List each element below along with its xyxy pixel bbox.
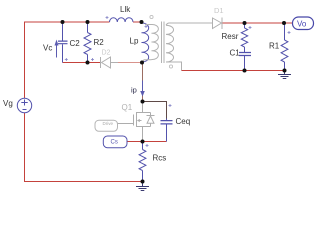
capacitor Ceq <box>161 119 173 124</box>
wire Llk to transformer <box>133 21 142 23</box>
svg-text:D1: D1 <box>214 6 224 15</box>
drive source block <box>95 120 118 131</box>
ground output <box>278 71 291 79</box>
mosfet Q1 <box>118 102 155 142</box>
diode D1 <box>213 18 223 30</box>
svg-text:Q1: Q1 <box>122 103 133 112</box>
svg-text:Llk: Llk <box>120 5 131 14</box>
junction C2 top <box>61 20 65 24</box>
junction Resr top <box>243 21 247 25</box>
polarity dot secondary <box>169 65 172 68</box>
svg-text:R2: R2 <box>94 38 105 47</box>
junction R2 bottom <box>86 61 90 65</box>
junction R1 bottom <box>283 69 287 73</box>
junction bottom rail end <box>141 180 145 184</box>
junction R1 top <box>282 21 286 25</box>
transformer T1 primary winding <box>143 24 159 62</box>
junction switch node <box>140 61 144 65</box>
svg-text:Vc: Vc <box>43 44 52 53</box>
wire drain to Ceq top <box>143 102 167 119</box>
svg-text:Lp: Lp <box>130 37 139 46</box>
svg-text:Vo: Vo <box>297 20 307 29</box>
wire bottom rail <box>24 181 143 183</box>
wire output bottom rail <box>182 70 285 72</box>
voltage source Vg <box>17 98 31 112</box>
polarity dot primary <box>150 15 153 18</box>
resistor Resr <box>241 23 247 47</box>
pin marker Resr <box>249 26 252 29</box>
wire switch node vertical ip <box>142 63 144 102</box>
svg-text:C2: C2 <box>70 39 81 48</box>
wire snubber bottom row left <box>63 62 101 64</box>
svg-text:Cs: Cs <box>111 139 118 145</box>
annotation Vc arrow <box>55 40 59 58</box>
resistor Rcs <box>139 142 146 182</box>
junction R2 top <box>86 20 90 24</box>
svg-text:Vg: Vg <box>3 99 13 108</box>
svg-text:Rcs: Rcs <box>153 154 167 163</box>
junction C1 bottom <box>243 69 247 73</box>
node label Vo box <box>293 17 314 30</box>
svg-text:ip: ip <box>131 86 137 95</box>
svg-text:D2: D2 <box>102 50 111 57</box>
pin marker R1 <box>288 31 291 34</box>
wire secondary top lead <box>170 22 213 24</box>
inductor Lp <box>142 23 149 62</box>
svg-text:C1: C1 <box>230 49 241 58</box>
ground main <box>136 182 149 191</box>
diode D2 <box>101 57 119 68</box>
wire top rail left <box>24 21 110 23</box>
transformer T1 secondary winding <box>166 23 175 62</box>
junction transformer top <box>140 20 144 24</box>
wire secondary bottom hook <box>175 62 182 71</box>
current sensor Cs block <box>103 136 127 148</box>
pin marker Llk <box>106 16 109 19</box>
pin marker R2 bottom <box>91 58 94 61</box>
resistor R2 <box>84 22 91 63</box>
junction source node <box>141 140 145 144</box>
pin marker C2 bottom <box>65 58 68 61</box>
wire left vertical lower <box>24 113 26 182</box>
pin marker Rcs <box>146 144 149 147</box>
wire Ceq bottom lead <box>166 124 168 141</box>
wire left vertical upper <box>24 22 26 99</box>
pin marker Lp <box>145 25 148 28</box>
svg-text:Ceq: Ceq <box>176 117 191 126</box>
svg-text:R1: R1 <box>269 42 280 51</box>
junction drain node <box>141 100 145 104</box>
wire source row <box>127 141 167 143</box>
wire output top rail <box>223 22 293 24</box>
svg-text:Resr: Resr <box>222 32 239 41</box>
svg-text:Drive: Drive <box>103 121 114 126</box>
transformer T1 core <box>162 22 165 64</box>
capacitor C2 <box>58 22 68 63</box>
pin marker Ceq <box>169 104 172 107</box>
annotation ip arrow <box>140 81 145 97</box>
wire D2 to switch node <box>114 62 142 64</box>
inductor Llk <box>110 18 134 22</box>
resistor R1 <box>281 24 288 71</box>
capacitor C1 <box>239 47 251 71</box>
